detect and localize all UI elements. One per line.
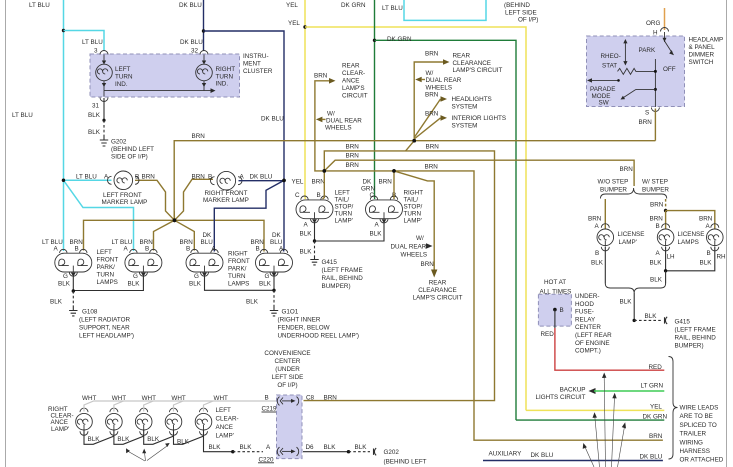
svg-text:C: C (295, 192, 300, 199)
wire cluster internal bus with arrow (104, 88, 216, 96)
lamp clearance 5 (left clearance lamp) (195, 395, 228, 435)
svg-text:BRN: BRN (346, 162, 360, 169)
svg-text:SPLICED TO: SPLICED TO (680, 422, 717, 429)
svg-text:LEFT SIDE: LEFT SIDE (272, 374, 304, 381)
svg-text:LAMP': LAMP' (619, 239, 637, 246)
svg-text:PARK/: PARK/ (97, 264, 116, 271)
svg-text:BLK: BLK (300, 249, 313, 256)
svg-text:BLK: BLK (88, 436, 101, 443)
svg-text:DK BLU: DK BLU (250, 174, 273, 181)
svg-text:DK BLU: DK BLU (640, 454, 663, 461)
svg-text:LT BLU: LT BLU (12, 112, 33, 119)
svg-text:BUMPER): BUMPER) (675, 343, 704, 350)
svg-text:ORG: ORG (646, 20, 660, 27)
trailer fan arrows (583, 373, 626, 467)
svg-text:B: B (75, 246, 79, 253)
svg-text:TURN: TURN (216, 74, 234, 81)
svg-text:AUXILIARY: AUXILIARY (489, 451, 523, 458)
wire BLK left tail A to G415 (300, 221, 317, 256)
wire BRN splice to right license lamp A (666, 211, 715, 230)
svg-text:ANCE: ANCE (216, 424, 234, 431)
lamp RIGHT FRONT MARKER (192, 171, 273, 204)
switch rheostat wiper line (601, 39, 628, 70)
connector C220 pin A to D6 (258, 444, 314, 464)
svg-text:(LEFT RADIATOR: (LEFT RADIATOR (79, 317, 131, 324)
ground G202 (behind left side of IP) (100, 137, 154, 161)
svg-text:B: B (265, 395, 269, 402)
svg-text:STOP/: STOP/ (335, 204, 354, 211)
svg-text:RIGHT: RIGHT (216, 66, 236, 73)
svg-text:BRN: BRN (425, 51, 439, 58)
svg-text:BRN: BRN (699, 216, 713, 223)
wire BLK merged to G415 connector (620, 293, 662, 322)
underhood fuse-relay center box (538, 279, 571, 326)
svg-text:WHEELS: WHEELS (401, 251, 428, 258)
wire BLK clearance staircase bus (84, 431, 233, 452)
wire BRN left fan to rear clearance lamps circuit (314, 63, 368, 171)
svg-text:DK BLU: DK BLU (531, 452, 554, 459)
svg-text:ARE TO BE: ARE TO BE (680, 413, 713, 420)
svg-text:TAIL/: TAIL/ (404, 197, 419, 204)
svg-text:B: B (595, 250, 599, 257)
svg-text:W/: W/ (416, 235, 424, 242)
svg-text:WHEELS: WHEELS (426, 85, 453, 92)
svg-text:HEADLAMP: HEADLAMP (689, 37, 724, 44)
svg-text:TURN: TURN (404, 211, 422, 218)
pin 31 connector bump (100, 98, 108, 102)
svg-text:REAR: REAR (429, 280, 447, 287)
svg-text:LAMPS: LAMPS (228, 281, 249, 288)
svg-text:LEFT: LEFT (115, 66, 131, 73)
svg-text:LT BLU: LT BLU (382, 5, 403, 12)
lamp clearance 4 (165, 395, 186, 435)
svg-text:LAMP': LAMP' (335, 218, 353, 225)
node YEL splice (303, 25, 306, 28)
svg-text:BRN: BRN (324, 395, 338, 402)
svg-text:B: B (145, 246, 149, 253)
svg-text:BLK: BLK (645, 313, 658, 320)
svg-text:LAMP': LAMP' (51, 426, 69, 433)
svg-text:G415: G415 (675, 319, 691, 326)
svg-text:SYSTEM: SYSTEM (452, 103, 478, 110)
wire BLK LP grounds to G108 (50, 277, 143, 308)
svg-text:YEL: YEL (292, 179, 304, 186)
svg-text:STAT: STAT (602, 63, 617, 70)
svg-text:SUPPORT, NEAR: SUPPORT, NEAR (79, 325, 130, 332)
svg-text:C219: C219 (262, 406, 278, 413)
svg-text:G1O1: G1O1 (282, 309, 299, 316)
lamp LICENSE middle (657, 224, 704, 251)
svg-text:CENTER: CENTER (575, 324, 601, 331)
svg-text:YEL: YEL (286, 2, 298, 9)
clearance splice pointers (126, 443, 170, 461)
svg-text:INTERIOR LIGHTS: INTERIOR LIGHTS (452, 115, 507, 122)
svg-text:RAIL, BEHIND: RAIL, BEHIND (675, 335, 717, 342)
wire DK BLU auxiliary (483, 451, 663, 461)
wire YEL trailer end (526, 404, 664, 411)
lamp clearance 1 (76, 395, 97, 435)
svg-text:BLK: BLK (189, 281, 202, 288)
svg-text:OF I/P): OF I/P) (518, 17, 538, 24)
svg-text:YEL: YEL (650, 404, 662, 411)
svg-text:W/ STEP: W/ STEP (642, 179, 668, 186)
svg-text:LEFT SIDE: LEFT SIDE (505, 10, 537, 17)
svg-text:LT BLU: LT BLU (112, 239, 133, 246)
svg-text:REAR: REAR (453, 53, 471, 60)
svg-text:G108: G108 (82, 309, 98, 316)
svg-text:BLK: BLK (324, 444, 337, 451)
label left front park turn lamps (97, 249, 119, 286)
svg-text:B: B (317, 192, 321, 199)
ground G101 (270, 307, 359, 340)
wire WHT bus to convenience center (84, 401, 277, 412)
wire BRN stub w/dual rear wheels at left fan (316, 111, 362, 132)
svg-text:FENDER, BELOW: FENDER, BELOW (278, 325, 330, 332)
svg-text:BRN: BRN (650, 216, 664, 223)
wire BRN right tail B pin drop (393, 171, 395, 199)
svg-text:BLK: BLK (620, 299, 633, 306)
svg-text:B: B (656, 223, 660, 230)
svg-text:HOT AT: HOT AT (544, 279, 566, 286)
svg-text:BRN: BRN (346, 144, 360, 151)
svg-text:LEFT: LEFT (216, 407, 232, 414)
svg-text:BRN: BRN (425, 163, 439, 170)
node BLK license splice (664, 269, 667, 272)
wire BRN line3 to license lamps (324, 153, 634, 187)
svg-text:BRN: BRN (312, 179, 326, 186)
switch park contact vertical (654, 59, 657, 107)
svg-text:BRN: BRN (421, 261, 435, 268)
svg-text:LAMPS: LAMPS (97, 279, 118, 286)
label w/dual rear wheels arrow at clearance drop (391, 235, 433, 258)
node BRN splice right tail (392, 169, 396, 173)
svg-text:OF I/P): OF I/P) (277, 382, 297, 389)
svg-text:LT BLU: LT BLU (76, 174, 97, 181)
svg-text:G202: G202 (384, 449, 400, 456)
lamp RIGHT TURN IND (196, 55, 236, 91)
lamp LEFT FRONT MARKER (102, 171, 156, 206)
svg-text:INSTRU-: INSTRU- (243, 53, 269, 60)
svg-text:YEL: YEL (288, 20, 300, 27)
node LT BLU splice top (62, 29, 65, 32)
pin 32 connector bump (200, 51, 208, 55)
svg-text:SIDE OF I/P): SIDE OF I/P) (111, 154, 148, 161)
lamp clearance 2 (106, 395, 127, 435)
wire BRN fan to interior lights system (414, 111, 506, 140)
svg-text:PARADE: PARADE (590, 86, 615, 93)
svg-text:DK: DK (272, 232, 282, 239)
svg-text:RHEO-: RHEO- (601, 53, 621, 60)
svg-text:LAMP': LAMP' (216, 433, 234, 440)
pin S connector bump (651, 108, 659, 112)
svg-text:BLK: BLK (240, 444, 253, 451)
wire BRN left marker B to splice (135, 180, 175, 220)
svg-text:LAMP'S CIRCUIT: LAMP'S CIRCUIT (453, 67, 503, 74)
svg-text:FRONT: FRONT (228, 258, 250, 265)
lamp LEFT TURN IND (96, 55, 133, 91)
switch parade mode arm (587, 78, 655, 106)
wire BRN left tail B pin drop (323, 171, 325, 199)
lamp left tail stop turn (292, 179, 334, 224)
label wire leads note (680, 405, 724, 464)
wire BLK right license lamp B down (666, 247, 726, 271)
svg-text:LT BLU: LT BLU (29, 2, 50, 9)
svg-text:WHEELS: WHEELS (325, 124, 352, 131)
svg-text:PARK: PARK (639, 47, 656, 54)
wire BRN diagonal to rear clearance circuit arrow down (394, 171, 463, 302)
svg-text:RIGHT: RIGHT (404, 190, 424, 197)
svg-text:DUAL REAR: DUAL REAR (391, 243, 427, 250)
svg-text:RAIL, BEHIND: RAIL, BEHIND (322, 275, 364, 282)
svg-text:LT BLU: LT BLU (82, 39, 103, 46)
lamp right tail stop turn (361, 179, 403, 224)
svg-text:G415: G415 (322, 259, 338, 266)
svg-text:WIRE LEADS: WIRE LEADS (680, 405, 719, 412)
svg-text:RIGHT: RIGHT (228, 251, 248, 258)
wire BRN splice to middle license lamp B (650, 211, 666, 230)
connector to G415 rear (665, 317, 717, 350)
svg-text:G: G (265, 273, 270, 280)
svg-text:RELAY: RELAY (575, 316, 596, 323)
svg-text:TRAILER: TRAILER (680, 431, 707, 438)
svg-text:(RIGHT INNER: (RIGHT INNER (278, 317, 321, 324)
svg-text:BRN: BRN (425, 111, 439, 118)
svg-text:STOP/: STOP/ (404, 204, 423, 211)
svg-text:G: G (133, 273, 138, 280)
svg-text:SYSTEM: SYSTEM (452, 122, 478, 129)
svg-text:BUMPER: BUMPER (642, 187, 669, 194)
svg-text:3: 3 (94, 48, 98, 55)
ground G415 left frame rail (310, 256, 363, 290)
wire BRN license left branch w/o step bumper (588, 199, 605, 230)
wire fuse output stub (554, 310, 556, 328)
svg-text:PARK/: PARK/ (228, 266, 247, 273)
svg-text:HEADLIGHTS: HEADLIGHTS (452, 96, 492, 103)
svg-text:32: 32 (191, 48, 199, 55)
label left clearance lamp (216, 407, 239, 440)
svg-text:BLK: BLK (58, 281, 71, 288)
svg-text:TURN: TURN (335, 211, 353, 218)
svg-text:BRN: BRN (192, 133, 206, 140)
svg-text:BRN: BRN (649, 433, 663, 440)
svg-text:TURN: TURN (115, 74, 133, 81)
svg-text:(BEHIND: (BEHIND (504, 2, 530, 9)
instrument cluster box (90, 53, 273, 97)
svg-text:UNDER-: UNDER- (575, 293, 600, 300)
lamp right front park/turn bulb 2 (251, 232, 293, 288)
lamp left front park/turn bulb 2 (112, 239, 162, 288)
wire LT BLU to left front marker lamp pin A (64, 174, 112, 181)
wire BRN fan to headlights system (414, 92, 492, 138)
wire BLK D6 to G202 rear (303, 444, 370, 453)
wire DK BLU marker A to splice dot (239, 180, 285, 182)
svg-text:(BEHIND LEFT: (BEHIND LEFT (384, 459, 427, 466)
wire DK GRN branch right to rear section (375, 36, 517, 420)
svg-text:31: 31 (92, 103, 100, 110)
svg-text:LICENSE: LICENSE (678, 231, 705, 238)
wire BLK RP grounds to G101 (205, 277, 276, 308)
node DK GRN splice (373, 39, 376, 42)
svg-text:BLK: BLK (177, 439, 190, 446)
svg-text:B: B (186, 246, 190, 253)
svg-text:& PANEL: & PANEL (689, 44, 716, 51)
wire BRN splice to LP bulb2 B (154, 220, 175, 250)
svg-text:CLEAR-: CLEAR- (216, 416, 239, 423)
svg-text:HARNESS: HARNESS (680, 448, 710, 455)
svg-text:CONVENIENCE: CONVENIENCE (264, 350, 310, 357)
splice X brown multi junction (173, 211, 177, 222)
svg-text:CIRCUIT: CIRCUIT (342, 93, 368, 100)
svg-text:LICENSE: LICENSE (618, 231, 645, 238)
svg-text:UNDERHOOD REEL LAMP'): UNDERHOOD REEL LAMP') (278, 333, 359, 340)
svg-text:HOOD: HOOD (575, 301, 594, 308)
node BRN splice left tail (323, 169, 327, 173)
svg-text:TAIL/: TAIL/ (335, 197, 350, 204)
svg-text:BLK: BLK (147, 436, 160, 443)
svg-text:CLEARANCE: CLEARANCE (453, 60, 492, 67)
svg-text:DK BLU: DK BLU (179, 2, 202, 9)
svg-text:BACKUP: BACKUP (560, 387, 586, 394)
svg-text:BUMPER): BUMPER) (322, 283, 351, 290)
wire DK GRN trailer end (516, 413, 667, 420)
wire BRN splice to RP bulb2 B (175, 220, 265, 251)
svg-text:CENTER: CENTER (275, 358, 301, 365)
svg-text:W/: W/ (426, 70, 434, 77)
wire YEL jog into left tail C / GRN jog into right tail C (304, 198, 307, 200)
connector to G202 rear (374, 448, 427, 465)
svg-text:DK BLU: DK BLU (180, 39, 203, 46)
wire YEL top vertical (286, 0, 305, 198)
resistor rheostat element (618, 47, 656, 74)
svg-text:CLEAR-: CLEAR- (342, 70, 365, 77)
svg-text:CLEARANCE: CLEARANCE (418, 287, 457, 294)
svg-text:(LEFT FRAME: (LEFT FRAME (675, 327, 716, 334)
svg-text:LEFT: LEFT (97, 249, 113, 256)
svg-text:D6: D6 (306, 444, 315, 451)
svg-text:BRN: BRN (379, 179, 393, 186)
wire BRN splice to LP bulb1 B (84, 220, 175, 250)
svg-text:B: B (256, 246, 260, 253)
node BRN fan splice (412, 139, 416, 143)
wire LT GRN backup lights stub (535, 383, 664, 401)
svg-text:RED: RED (649, 364, 663, 371)
svg-text:BLK: BLK (246, 299, 259, 306)
svg-text:DK GRN: DK GRN (387, 36, 412, 43)
svg-text:BLK: BLK (591, 260, 604, 267)
label right front park turn lamps (228, 251, 250, 288)
svg-text:DK BLU: DK BLU (261, 116, 284, 123)
wire BRN line2 to convenience center C8 (304, 144, 495, 401)
switch dimmer contact at H (663, 32, 676, 73)
svg-text:RIGHT FRONT: RIGHT FRONT (205, 190, 248, 197)
svg-text:LIGHTS CIRCUIT: LIGHTS CIRCUIT (535, 394, 585, 401)
svg-text:LEFT: LEFT (335, 190, 351, 197)
svg-text:BLK: BLK (117, 436, 130, 443)
svg-text:BRN: BRN (639, 119, 653, 126)
ground G108 (69, 307, 134, 340)
svg-text:TURN: TURN (97, 272, 115, 279)
lamp LICENSE (left) (597, 224, 644, 251)
svg-text:(LEFT FRAME: (LEFT FRAME (322, 267, 363, 274)
wire BRN license right branch w/ step bumper (650, 199, 666, 211)
svg-text:MARKER LAMP: MARKER LAMP (102, 199, 148, 206)
svg-text:BLK: BLK (88, 112, 101, 119)
svg-text:BLK: BLK (128, 281, 141, 288)
wire DK BLU branch right and down to marker splice (204, 31, 285, 180)
svg-text:LT GRN: LT GRN (641, 383, 664, 390)
wire BRN diagonal line2 to fan splice (406, 141, 415, 151)
label left tail stop turn lamp (335, 190, 354, 225)
svg-text:BLK: BLK (700, 260, 713, 267)
svg-text:SWITCH: SWITCH (689, 59, 714, 66)
svg-text:LEFT HEADLAMP'): LEFT HEADLAMP') (79, 333, 134, 340)
wire BRN splice to RP bulb1 B (175, 220, 195, 250)
headlamp and panel dimmer switch box (587, 36, 724, 107)
node DK BLU splice (202, 29, 205, 32)
node BLK clearance to C220 (209, 444, 264, 453)
svg-text:LAMP': LAMP' (404, 218, 422, 225)
svg-text:B: B (208, 174, 212, 181)
svg-text:DK GRN: DK GRN (643, 413, 668, 420)
brace trailer leads (669, 357, 678, 460)
svg-text:LAMPS: LAMPS (678, 239, 699, 246)
label right tail stop turn lamp (404, 190, 424, 225)
wire BRN fan vertical to rear clearance lamps circuit arrow (414, 51, 502, 141)
svg-text:RH: RH (717, 254, 727, 261)
svg-text:OFF: OFF (663, 66, 676, 73)
svg-text:FRONT: FRONT (97, 257, 119, 264)
wire LT BLU branch to cluster pin 3 (64, 31, 105, 55)
svg-text:LAMP'S CIRCUIT: LAMP'S CIRCUIT (413, 295, 463, 302)
svg-text:C: C (370, 192, 375, 199)
svg-text:SW: SW (599, 100, 609, 107)
svg-text:BLK: BLK (259, 281, 272, 288)
license lamps option braces (598, 179, 670, 199)
svg-text:W/O STEP: W/O STEP (598, 179, 629, 186)
node BRN license splice (664, 209, 667, 212)
wire BLK splice down to merge brace (650, 271, 666, 284)
svg-text:OF ENGINE: OF ENGINE (575, 340, 610, 347)
svg-text:TURN: TURN (228, 273, 246, 280)
svg-text:BLK: BLK (300, 231, 313, 238)
svg-text:BLK: BLK (370, 231, 383, 238)
junction dots overlay (62, 139, 416, 222)
svg-text:BLK: BLK (50, 299, 63, 306)
svg-text:DK GRN: DK GRN (341, 2, 366, 9)
svg-text:BLK: BLK (88, 129, 101, 136)
svg-text:RED: RED (541, 331, 555, 338)
svg-text:BRN: BRN (620, 166, 634, 173)
lamp right front park/turn bulb 1 (180, 232, 224, 288)
svg-text:BLK: BLK (650, 260, 663, 267)
svg-text:ANCE: ANCE (342, 78, 360, 85)
svg-text:LAMP'S: LAMP'S (342, 85, 365, 92)
svg-text:BRN: BRN (426, 144, 440, 151)
svg-text:OR ATTACHED: OR ATTACHED (680, 457, 724, 464)
label underhood fuse relay center (575, 293, 612, 355)
svg-text:BUMPER: BUMPER (600, 187, 627, 194)
svg-text:B: B (135, 174, 139, 181)
wire YEL branch right to rear section (288, 20, 526, 410)
svg-text:DIMMER: DIMMER (689, 52, 715, 59)
lamp clearance 3 (135, 395, 156, 435)
wire ORG to headlamp switch pin H (646, 8, 665, 37)
wire DK BLU zigzag to RP bulb1 A (214, 180, 284, 251)
pin 3 connector bump (100, 51, 108, 55)
wire BLK right tail A to splice (315, 221, 385, 241)
wire BRN main bus (174, 133, 655, 219)
svg-text:CLUSTER: CLUSTER (243, 68, 273, 75)
